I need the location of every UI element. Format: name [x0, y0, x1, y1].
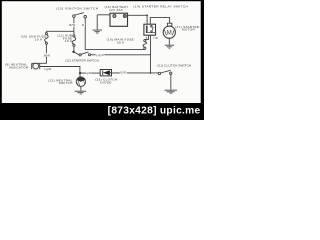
svg-text:10 A: 10 A — [35, 38, 43, 42]
svg-text:[873x428] upic.me: [873x428] upic.me — [108, 106, 201, 117]
svg-text:(14) STARTER RELAY SWITCH: (14) STARTER RELAY SWITCH — [133, 5, 188, 9]
svg-text:10 A: 10 A — [65, 39, 73, 43]
svg-text:R: R — [82, 23, 84, 27]
svg-text:Lg/R: Lg/R — [45, 67, 52, 71]
svg-text:Y/R: Y/R — [95, 53, 100, 57]
svg-text:M: M — [167, 30, 172, 36]
svg-text:(13) IGNITION SWITCH: (13) IGNITION SWITCH — [56, 6, 98, 10]
svg-text:(10) SUB FUSE: (10) SUB FUSE — [21, 34, 47, 38]
svg-text:B/W: B/W — [44, 53, 50, 57]
svg-text:(21) CLUTCH SWITCH: (21) CLUTCH SWITCH — [157, 63, 191, 67]
svg-text:R: R — [102, 53, 104, 57]
svg-text:SWITCH: SWITCH — [59, 81, 73, 85]
svg-text:12V 8Ah: 12V 8Ah — [109, 8, 123, 12]
svg-text:B/W: B/W — [69, 23, 75, 27]
svg-text:Y/R: Y/R — [153, 36, 158, 40]
svg-text:G/R: G/R — [120, 71, 126, 75]
svg-text:INDICATOR: INDICATOR — [9, 66, 29, 70]
svg-text:30 A: 30 A — [117, 41, 125, 45]
svg-text:DIODE: DIODE — [100, 81, 111, 85]
svg-text:MOTOR: MOTOR — [182, 28, 195, 32]
svg-text:B: B — [146, 38, 148, 40]
svg-text:Lg/R: Lg/R — [85, 71, 92, 75]
svg-text:(12) STARTER SWITCH: (12) STARTER SWITCH — [65, 59, 99, 63]
